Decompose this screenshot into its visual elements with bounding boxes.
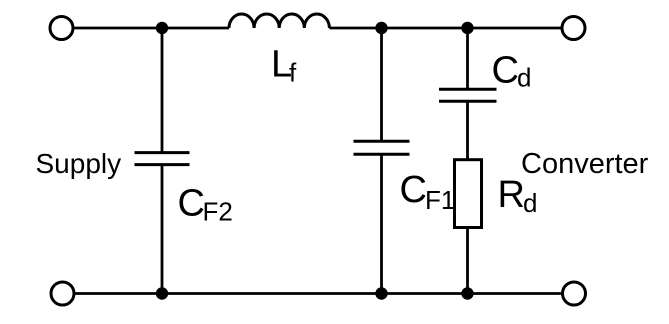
node junction bottom of CF2: [156, 287, 168, 299]
svg-text:Converter: Converter: [521, 148, 649, 180]
wire Rd lower lead: [466, 228, 469, 294]
node junction bottom of Rd: [461, 287, 473, 299]
svg-text:f: f: [289, 58, 297, 88]
capacitor CF2: [135, 153, 190, 165]
resistor Rd: [455, 160, 482, 228]
wire CF1 upper lead: [380, 28, 383, 141]
wire CF1 lower lead: [380, 154, 383, 293]
wire Cd upper lead: [466, 28, 469, 89]
wire top rail right segment: [329, 27, 561, 30]
svg-text:R: R: [498, 174, 525, 216]
capacitor Cd: [439, 89, 497, 101]
wire CF2 lower lead: [161, 165, 164, 294]
svg-text:d: d: [523, 188, 537, 218]
svg-text:C: C: [400, 169, 427, 211]
svg-text:d: d: [517, 63, 531, 93]
node junction top of CF2: [156, 22, 168, 34]
inductor Lf: [229, 14, 329, 28]
svg-text:C: C: [178, 182, 205, 224]
wire bottom rail: [76, 292, 562, 295]
capacitor CF1: [354, 141, 410, 154]
wire between Cd and Rd: [466, 101, 469, 159]
wire top rail left segment: [75, 27, 230, 30]
wire CF2 upper lead: [161, 28, 164, 153]
node junction top of CF1: [375, 22, 387, 34]
terminal bottom-right: [563, 282, 586, 305]
terminal bottom-left: [51, 282, 74, 305]
svg-text:F2: F2: [203, 196, 233, 226]
svg-text:F1: F1: [425, 185, 455, 215]
terminal top-right: [562, 17, 585, 40]
svg-text:C: C: [492, 50, 519, 92]
node junction bottom of CF1: [375, 287, 387, 299]
svg-text:Supply: Supply: [36, 148, 122, 179]
terminal top-left: [50, 17, 73, 40]
node junction top of Cd: [461, 22, 473, 34]
